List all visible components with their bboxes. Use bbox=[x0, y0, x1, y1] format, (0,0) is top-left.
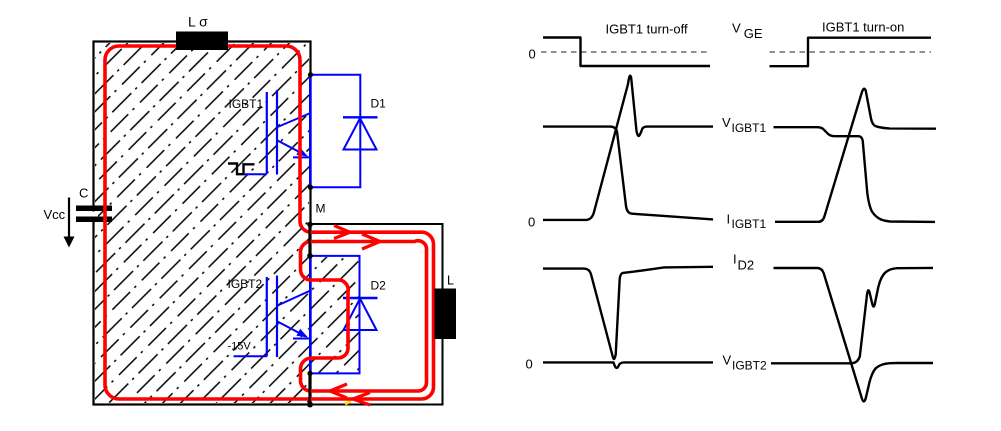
svg-text:D1: D1 bbox=[371, 97, 387, 111]
svg-text:I: I bbox=[727, 212, 731, 227]
svg-text:0: 0 bbox=[526, 357, 533, 372]
svg-text:IGBT1 turn-off: IGBT1 turn-off bbox=[606, 22, 689, 37]
svg-text:M: M bbox=[316, 202, 326, 216]
svg-text:0: 0 bbox=[528, 215, 535, 230]
svg-text:L: L bbox=[447, 274, 454, 288]
svg-text:D2: D2 bbox=[371, 279, 387, 293]
svg-text:IGBT1 turn-on: IGBT1 turn-on bbox=[822, 20, 904, 35]
svg-text:Vcc: Vcc bbox=[44, 207, 66, 222]
svg-text:V: V bbox=[722, 115, 731, 130]
svg-text:0: 0 bbox=[529, 47, 536, 62]
svg-text:IGBT1: IGBT1 bbox=[732, 217, 767, 231]
svg-text:IGBT1: IGBT1 bbox=[229, 97, 264, 111]
svg-text:L σ: L σ bbox=[188, 14, 208, 30]
svg-text:C: C bbox=[79, 186, 88, 201]
svg-text:IGBT2: IGBT2 bbox=[732, 359, 767, 373]
svg-text:V: V bbox=[732, 21, 741, 36]
svg-text:I: I bbox=[733, 252, 737, 267]
svg-text:V: V bbox=[723, 353, 732, 368]
svg-text:-15V: -15V bbox=[228, 341, 252, 353]
svg-text:D2: D2 bbox=[738, 258, 755, 273]
svg-text:IGBT1: IGBT1 bbox=[732, 121, 767, 135]
svg-text:GE: GE bbox=[744, 26, 763, 41]
svg-text:IGBT2: IGBT2 bbox=[228, 277, 263, 291]
